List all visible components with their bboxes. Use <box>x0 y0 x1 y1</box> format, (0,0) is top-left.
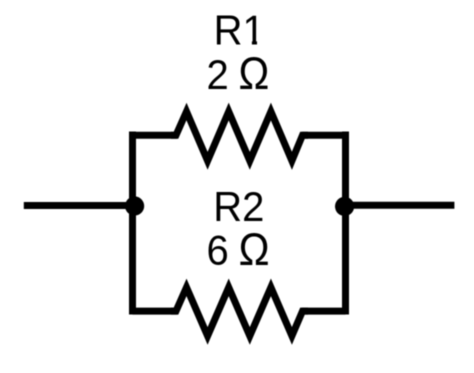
svg-text:6: 6 <box>206 227 228 274</box>
wire left vertical <box>129 135 136 311</box>
label R1 value: digit 2 <box>206 51 228 98</box>
svg-text:R1: R1 <box>214 7 265 54</box>
resistor R1 <box>171 112 308 161</box>
label R1 <box>214 7 265 54</box>
svg-text:2: 2 <box>206 51 228 98</box>
node junction right <box>335 197 354 216</box>
label R1 value: ohm symbol <box>239 49 270 99</box>
label R2 value: ohm symbol <box>239 225 270 275</box>
resistor R2 <box>171 287 308 336</box>
wire right lead <box>345 202 455 209</box>
patch: remove serif foot of digit 1 (left) <box>243 40 252 46</box>
wire bottom-right segment <box>302 308 346 315</box>
wire right vertical <box>342 135 349 311</box>
wire top-left segment <box>133 132 178 139</box>
svg-text:Ω: Ω <box>239 49 270 99</box>
wire left lead <box>24 202 135 209</box>
svg-text:Ω: Ω <box>239 225 270 275</box>
patch: remove serif foot of digit 1 (right) <box>257 40 264 46</box>
svg-text:R2: R2 <box>213 183 264 230</box>
node junction left <box>125 196 144 215</box>
wire top-right segment <box>302 132 346 139</box>
label R2 <box>213 183 264 230</box>
wire bottom-left segment <box>133 308 178 315</box>
label R2 value: digit 6 <box>206 227 228 274</box>
